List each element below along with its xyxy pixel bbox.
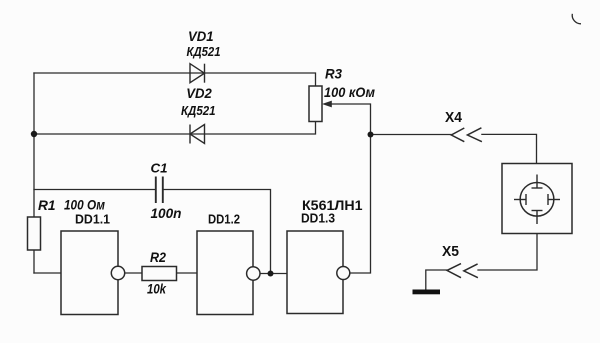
transducer circle [520, 182, 554, 216]
svg-text:КД521: КД521 [181, 103, 216, 118]
stray arc mark top right [572, 14, 581, 24]
svg-text:КД521: КД521 [187, 44, 221, 59]
svg-text:100 Ом: 100 Ом [64, 198, 105, 213]
svg-text:R1: R1 [38, 197, 56, 213]
wire C1 row left [34, 189, 155, 191]
wire top horizontal (VD1 row) [34, 73, 316, 86]
capacitor C1 plates [156, 177, 163, 204]
resistor R2 [142, 267, 177, 281]
svg-text:С1: С1 [151, 161, 168, 176]
wire node B down to DD1.3 output [350, 135, 371, 274]
svg-text:DD1.1: DD1.1 [75, 212, 110, 227]
wire left vertical bus [33, 73, 35, 273]
connector X5 chevrons [447, 264, 478, 278]
wire input DD1.1 [34, 272, 61, 274]
node C junction dot [268, 271, 274, 277]
resistor R1 [28, 217, 41, 250]
transducer electrodes [514, 175, 560, 225]
inverter DD1.3 [287, 231, 350, 314]
wire transducer box to X5 [478, 234, 537, 271]
inverter DD1.2 [197, 231, 260, 315]
wire node B to X4 [371, 134, 452, 136]
node B junction dot [368, 132, 374, 138]
node A junction dot [31, 131, 37, 137]
wire X5 to ground [426, 270, 447, 290]
svg-text:R2: R2 [150, 249, 166, 265]
svg-text:X5: X5 [442, 243, 459, 260]
svg-text:DD1.2: DD1.2 [208, 212, 240, 227]
wire R2 to DD1.2 input [177, 272, 198, 274]
svg-text:VD2: VD2 [186, 85, 212, 101]
svg-text:VD1: VD1 [188, 28, 214, 44]
resistor R3 potentiometer body [309, 86, 322, 122]
wire DD1.2 output to DD1.3 input [260, 273, 287, 275]
diode VD2 [190, 125, 205, 144]
inverter DD1.1 [61, 231, 125, 315]
wire DD1.1 output to R2 [125, 272, 142, 274]
wire C1 row right down to gate chain [164, 190, 271, 274]
R3 wiper arrowhead [322, 101, 332, 108]
svg-text:X4: X4 [445, 109, 463, 126]
svg-text:DD1.3: DD1.3 [301, 211, 335, 226]
diode VD1 [190, 64, 205, 83]
svg-text:100 кОм: 100 кОм [324, 85, 375, 100]
svg-text:R3: R3 [325, 66, 342, 82]
svg-text:100n: 100n [151, 205, 182, 221]
wire lower horizontal (VD2 row) [34, 122, 316, 135]
wire R3 wiper to node B [331, 104, 371, 135]
ground [413, 290, 441, 295]
svg-text:10k: 10k [147, 281, 167, 297]
transducer BF box [502, 164, 572, 234]
wire X4 to transducer box [482, 134, 537, 163]
connector X4 chevrons [451, 128, 482, 142]
